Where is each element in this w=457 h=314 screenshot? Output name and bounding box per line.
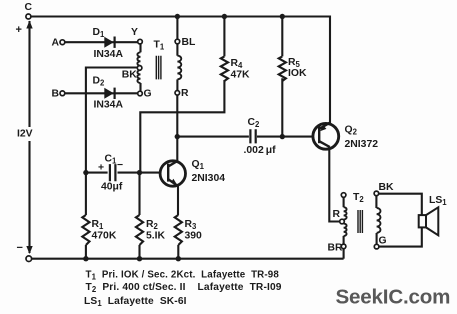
- svg-text:R1: R1: [92, 219, 105, 231]
- svg-text:T2: T2: [353, 192, 364, 204]
- svg-text:T1 Pri. IOK / Sec. 2Kct. Laf: T1 Pri. IOK / Sec. 2Kct. Lafayette TR-98: [86, 269, 280, 281]
- svg-text:40μf: 40μf: [101, 182, 123, 193]
- svg-text:C: C: [25, 2, 33, 13]
- svg-text:BL: BL: [182, 37, 197, 48]
- svg-text:R2: R2: [146, 219, 159, 231]
- svg-text:BK: BK: [379, 182, 395, 193]
- svg-text:−: −: [17, 242, 23, 254]
- svg-text:IN34A: IN34A: [94, 49, 124, 60]
- svg-text:R: R: [333, 209, 341, 220]
- svg-text:−: −: [117, 160, 123, 171]
- svg-text:Q1: Q1: [192, 159, 205, 171]
- svg-text:C1: C1: [105, 154, 118, 166]
- svg-text:5.IK: 5.IK: [146, 231, 166, 242]
- svg-text:R4: R4: [231, 58, 244, 70]
- svg-text:390: 390: [185, 231, 203, 242]
- svg-text:+: +: [16, 24, 22, 36]
- svg-text:BK: BK: [122, 70, 138, 81]
- svg-text:B: B: [52, 89, 60, 100]
- svg-text:Y: Y: [131, 27, 138, 38]
- svg-text:Q2: Q2: [345, 125, 358, 137]
- svg-text:47K: 47K: [231, 70, 251, 81]
- svg-text:2NI304: 2NI304: [192, 173, 226, 184]
- svg-text:D1: D1: [93, 27, 106, 39]
- svg-text:A: A: [52, 38, 60, 49]
- svg-text:BR: BR: [328, 243, 344, 254]
- svg-text:LS1 Lafayette SK-6I: LS1 Lafayette SK-6I: [84, 296, 187, 308]
- svg-text:470K: 470K: [92, 231, 117, 242]
- svg-text:.002 μf: .002 μf: [244, 145, 277, 156]
- svg-text:G: G: [144, 89, 152, 100]
- svg-text:IN34A: IN34A: [94, 100, 124, 111]
- svg-text:G: G: [379, 236, 387, 247]
- svg-text:I2V: I2V: [17, 129, 33, 140]
- svg-text:+: +: [98, 163, 104, 174]
- svg-text:T2 Pri. 400 ct/Sec. II Laf: T2 Pri. 400 ct/Sec. II Lafayette TR-I09: [86, 282, 282, 294]
- svg-text:2NI372: 2NI372: [345, 139, 379, 150]
- svg-text:R3: R3: [185, 219, 198, 231]
- svg-text:C2: C2: [248, 117, 261, 129]
- svg-text:LS1: LS1: [429, 195, 447, 207]
- svg-text:SeekIC.com: SeekIC.com: [336, 286, 451, 309]
- svg-text:IOK: IOK: [288, 68, 307, 79]
- svg-text:T1: T1: [154, 40, 165, 52]
- svg-text:D2: D2: [93, 76, 106, 88]
- svg-text:R: R: [181, 88, 189, 99]
